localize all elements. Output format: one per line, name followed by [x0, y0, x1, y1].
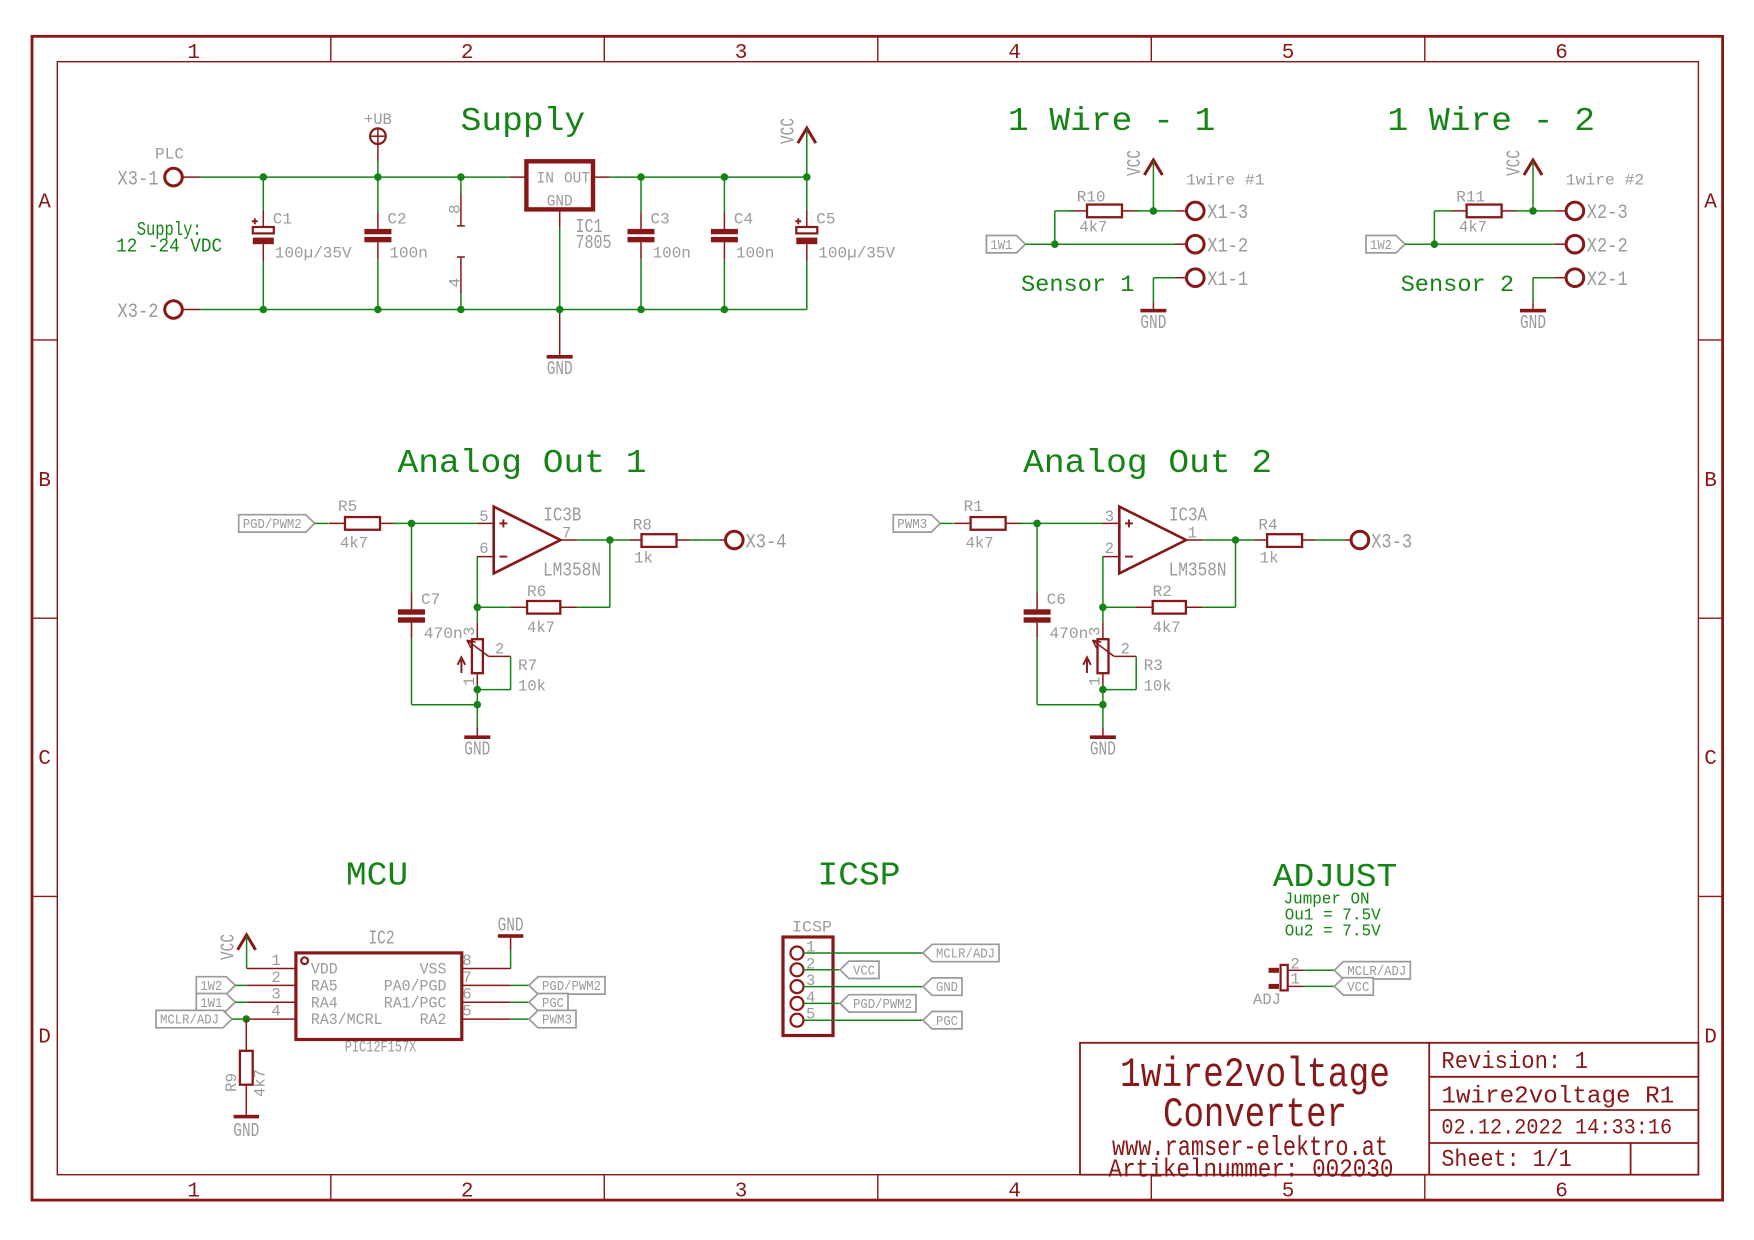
svg-text:RA3/MCRL: RA3/MCRL	[311, 1011, 383, 1029]
wire op-amp out	[1203, 536, 1254, 544]
wire ICSP pin2 VCC	[804, 969, 841, 971]
svg-text:4k7: 4k7	[1079, 219, 1107, 237]
svg-text:A: A	[1704, 192, 1717, 215]
wire supply top rail right	[610, 176, 807, 178]
section title Analog Out 2	[1023, 445, 1272, 482]
wire R10 to X-3	[1135, 207, 1175, 215]
capacitor C1	[252, 177, 352, 309]
svg-text:X3-3: X3-3	[1371, 531, 1412, 554]
svg-text:Ou2 = 7.5V: Ou2 = 7.5V	[1285, 922, 1382, 941]
svg-text:Converter: Converter	[1163, 1091, 1347, 1139]
svg-text:1wire #2: 1wire #2	[1566, 172, 1644, 190]
wire feedback vertical	[577, 540, 610, 607]
section title ICSP	[818, 858, 901, 895]
svg-text:3: 3	[735, 42, 748, 65]
ground GND MCU top	[498, 915, 524, 951]
svg-text:5: 5	[479, 508, 488, 526]
svg-text:C7: C7	[421, 591, 440, 609]
wire 1W1 to RA4	[235, 1001, 247, 1003]
svg-text:1W1: 1W1	[990, 239, 1012, 254]
svg-text:IC3A: IC3A	[1169, 505, 1207, 527]
svg-text:3: 3	[735, 1181, 748, 1204]
svg-text:+UB: +UB	[364, 111, 392, 129]
power VCC supply	[777, 118, 815, 177]
wire X2-1 to ground	[1533, 278, 1555, 303]
svg-text:C: C	[38, 748, 51, 771]
svg-text:A: A	[38, 192, 51, 215]
svg-text:100µ/35V: 100µ/35V	[275, 245, 352, 263]
svg-text:2: 2	[806, 955, 815, 973]
svg-text:Analog Out 2: Analog Out 2	[1023, 445, 1272, 482]
wire trimmer wiper	[1099, 656, 1136, 693]
svg-text:1wire #1: 1wire #1	[1186, 172, 1264, 190]
svg-text:C2: C2	[387, 211, 406, 229]
svg-text:X1-3: X1-3	[1207, 202, 1248, 225]
connector X3-2	[118, 301, 201, 324]
svg-text:12 -24 VDC: 12 -24 VDC	[116, 236, 222, 258]
svg-text:B: B	[1704, 470, 1717, 493]
connector X1-3	[1175, 202, 1248, 225]
svg-text:2: 2	[495, 641, 504, 659]
svg-text:PWM3: PWM3	[897, 518, 927, 533]
power VCC MCU	[218, 934, 256, 969]
ground GND Analog Out 2	[1090, 728, 1116, 761]
wire inverting input	[474, 557, 511, 623]
svg-text:1: 1	[187, 1181, 200, 1204]
svg-text:R1: R1	[964, 498, 983, 516]
power VCC 1 Wire - 2	[1504, 150, 1542, 211]
svg-text:1: 1	[1188, 525, 1197, 543]
node 1wire #2	[1566, 172, 1644, 190]
svg-text:2: 2	[1121, 641, 1130, 659]
section title MCU	[346, 858, 408, 895]
svg-text:X1-1: X1-1	[1207, 269, 1248, 292]
wire jumper pin2 MCLR/ADJ	[1303, 969, 1334, 971]
flag 1W1	[986, 236, 1025, 254]
connector X2-1	[1555, 269, 1628, 292]
svg-text:100n: 100n	[389, 245, 427, 263]
power VCC 1 Wire - 1	[1124, 150, 1162, 211]
svg-text:R9: R9	[223, 1073, 241, 1092]
resistor R8	[629, 517, 690, 568]
svg-text:1W1: 1W1	[200, 997, 222, 1012]
wire X1-1 to ground	[1153, 278, 1175, 303]
ground GND R9	[233, 1115, 259, 1142]
svg-text:1k: 1k	[1260, 549, 1279, 567]
wire feedback vertical	[1203, 540, 1236, 607]
svg-text:8: 8	[446, 204, 464, 214]
svg-text:4k7: 4k7	[527, 619, 555, 637]
connector X3-3	[1345, 531, 1412, 554]
op-amp ('IC3B', 'LM358N')	[477, 505, 601, 582]
title block	[1080, 1043, 1698, 1185]
svg-text:Artikelnummer: 002030: Artikelnummer: 002030	[1109, 1155, 1394, 1185]
svg-text:R7: R7	[518, 657, 537, 675]
svg-text:7: 7	[562, 525, 571, 543]
svg-text:R5: R5	[338, 498, 357, 516]
ground GND supply	[547, 310, 573, 381]
svg-text:100n: 100n	[653, 245, 691, 263]
svg-text:1: 1	[1087, 677, 1105, 686]
wire 1W2 net	[1405, 211, 1555, 248]
svg-text:B: B	[38, 470, 51, 493]
svg-text:C6: C6	[1047, 591, 1066, 609]
svg-text:X2-3: X2-3	[1587, 202, 1628, 225]
resistor R9	[223, 1019, 270, 1115]
svg-text:8: 8	[462, 952, 471, 970]
svg-text:X2-2: X2-2	[1587, 236, 1628, 259]
section title 1 Wire - 1	[1008, 103, 1216, 140]
wire to ground Analog Out 2	[1099, 690, 1107, 728]
svg-text:470n: 470n	[1049, 625, 1088, 643]
connector X1-2	[1175, 235, 1248, 258]
wire jumper pin1 VCC	[1303, 985, 1334, 987]
svg-text:VCC: VCC	[777, 118, 799, 144]
wire supply bottom rail	[200, 309, 807, 311]
svg-text:GND: GND	[547, 358, 573, 380]
svg-text:IC2: IC2	[369, 928, 395, 950]
svg-text:4: 4	[1008, 1181, 1021, 1204]
svg-text:4: 4	[271, 1003, 280, 1021]
jumper ADJ	[1253, 956, 1303, 1010]
microcontroller IC2 PIC12F157X	[247, 928, 511, 1057]
op-amp power pin 4	[446, 257, 465, 310]
op-amp ('IC3A', 'LM358N')	[1103, 505, 1227, 582]
capacitor C4	[711, 177, 774, 309]
node 1wire #1	[1186, 172, 1264, 190]
wire supply top rail	[200, 176, 510, 178]
wire +UB to rail	[377, 161, 379, 177]
svg-text:1 Wire - 1: 1 Wire - 1	[1008, 103, 1216, 140]
svg-text:R4: R4	[1258, 517, 1277, 535]
svg-text:D: D	[1704, 1026, 1717, 1049]
svg-text:6: 6	[479, 540, 488, 558]
svg-text:3: 3	[271, 986, 280, 1004]
svg-text:100n: 100n	[736, 245, 774, 263]
flag VCC ADJUST	[1334, 978, 1373, 996]
svg-text:GND: GND	[1140, 312, 1166, 334]
ground GND Analog Out 1	[464, 728, 490, 761]
svg-text:1: 1	[271, 952, 280, 970]
connector X3-4	[720, 531, 787, 554]
svg-text:PGC: PGC	[542, 997, 564, 1012]
flag VCC ICSP	[840, 961, 879, 979]
flag PGC MCU	[511, 994, 568, 1012]
svg-text:Supply: Supply	[461, 103, 586, 140]
svg-text:1: 1	[187, 42, 200, 65]
wire MCLR/ADJ to RA3	[232, 1015, 250, 1023]
svg-text:3: 3	[461, 627, 479, 636]
flag PGD/PWM2 MCU	[511, 977, 605, 995]
wire PGD/PWM2 to R5	[315, 522, 328, 524]
flag PGC ICSP	[923, 1012, 962, 1030]
trimmer R7	[458, 622, 546, 695]
op-amp power pin 8	[446, 177, 465, 226]
svg-text:C3: C3	[651, 211, 670, 229]
svg-text:4k7: 4k7	[340, 535, 368, 553]
wire inverting input	[1099, 557, 1136, 623]
svg-text:MCLR/ADJ: MCLR/ADJ	[160, 1014, 219, 1029]
svg-text:C4: C4	[734, 211, 753, 229]
wire 1W1 net	[1025, 211, 1175, 248]
svg-text:5: 5	[806, 1006, 815, 1024]
svg-text:VCC: VCC	[218, 934, 240, 960]
svg-text:1W2: 1W2	[1370, 239, 1392, 254]
wire R11 to X-3	[1515, 207, 1555, 215]
svg-text:LM358N: LM358N	[1169, 560, 1227, 582]
svg-text:GND: GND	[233, 1120, 259, 1142]
svg-text:1: 1	[1291, 971, 1300, 989]
flag PWM3	[893, 515, 940, 533]
connector X1-1	[1175, 269, 1248, 292]
svg-text:6: 6	[1555, 42, 1568, 65]
svg-text:GND: GND	[547, 193, 573, 211]
svg-text:VCC: VCC	[1124, 150, 1146, 176]
svg-text:7805: 7805	[576, 232, 612, 254]
svg-text:IN: IN	[537, 170, 554, 188]
connector ICSP header	[783, 919, 833, 1036]
svg-text:ICSP: ICSP	[792, 919, 832, 937]
svg-text:Revision: 1: Revision: 1	[1441, 1049, 1588, 1076]
svg-text:RA1/PGC: RA1/PGC	[384, 994, 447, 1012]
svg-text:4: 4	[1008, 42, 1021, 65]
voltage regulator IC1 7805	[510, 161, 612, 254]
svg-text:470n: 470n	[424, 625, 463, 643]
svg-text:10k: 10k	[518, 678, 546, 696]
wire R8 to X3-4	[690, 539, 720, 541]
svg-text:4: 4	[806, 989, 815, 1007]
svg-text:PWM3: PWM3	[542, 1014, 572, 1029]
svg-text:X1-2: X1-2	[1207, 236, 1248, 259]
svg-text:MCLR/ADJ: MCLR/ADJ	[936, 948, 995, 963]
svg-text:X2-1: X2-1	[1587, 269, 1628, 292]
wire R1 to op-amp	[1019, 520, 1103, 528]
flag MCLR/ADJ ICSP	[923, 944, 999, 962]
wire to ground Analog Out 1	[474, 690, 482, 728]
svg-text:RA5: RA5	[311, 977, 338, 995]
svg-text:X3-4: X3-4	[746, 531, 787, 554]
svg-text:VCC: VCC	[853, 964, 875, 979]
svg-text:C1: C1	[273, 211, 292, 229]
power +UB	[364, 111, 392, 161]
flag MCLR/ADJ ADJUST	[1334, 962, 1410, 980]
svg-text:PGD/PWM2: PGD/PWM2	[853, 998, 912, 1013]
svg-text:RA2: RA2	[420, 1011, 447, 1029]
note Sensor 1	[1021, 272, 1135, 298]
svg-text:C: C	[1704, 748, 1717, 771]
svg-text:5: 5	[462, 1003, 471, 1021]
flag PGD/PWM2 ICSP	[840, 995, 916, 1013]
svg-text:4k7: 4k7	[1153, 619, 1181, 637]
wire VSS to GND	[510, 950, 512, 969]
svg-text:VDD: VDD	[311, 961, 338, 979]
svg-text:X3-1: X3-1	[118, 168, 159, 191]
svg-text:GND: GND	[464, 738, 490, 760]
resistor R6	[510, 583, 577, 637]
svg-text:OUT: OUT	[564, 170, 590, 188]
svg-text:Analog Out 1: Analog Out 1	[398, 445, 647, 482]
svg-text:2: 2	[271, 969, 280, 987]
svg-text:PLC: PLC	[155, 146, 184, 164]
svg-text:R3: R3	[1144, 657, 1163, 675]
wire ICSP pin5 PGC	[804, 1019, 924, 1021]
capacitor C7	[398, 523, 463, 704]
section title Analog Out 1	[398, 445, 647, 482]
svg-text:PGC: PGC	[936, 1015, 958, 1030]
wire 1W2 to RA5	[235, 984, 247, 986]
wire R5 to op-amp	[393, 520, 477, 528]
svg-text:5: 5	[1282, 42, 1295, 65]
connector X2-2	[1555, 235, 1628, 258]
connector X3-1	[118, 168, 201, 191]
capacitor C5	[795, 177, 895, 309]
resistor R2	[1136, 583, 1203, 637]
capacitor C3	[628, 177, 691, 309]
resistor R4	[1254, 517, 1315, 568]
trimmer R3	[1083, 622, 1171, 695]
svg-text:4: 4	[446, 278, 464, 288]
svg-text:6: 6	[462, 986, 471, 1004]
svg-text:3: 3	[1087, 627, 1105, 636]
svg-text:4k7: 4k7	[252, 1069, 270, 1097]
svg-text:10k: 10k	[1144, 678, 1172, 696]
resistor R10	[1071, 189, 1139, 237]
svg-text:6: 6	[1555, 1181, 1568, 1204]
svg-text:VSS: VSS	[420, 961, 447, 979]
wire PWM3 to R1	[940, 522, 953, 524]
ground GND 1 Wire - 1	[1140, 303, 1166, 334]
note Jumper ON	[1284, 891, 1382, 942]
svg-text:X3-2: X3-2	[118, 301, 159, 324]
svg-text:VCC: VCC	[1504, 150, 1526, 176]
svg-text:RA4: RA4	[311, 994, 338, 1012]
note Supply voltage	[116, 219, 222, 258]
svg-text:7: 7	[462, 969, 471, 987]
svg-text:1: 1	[806, 939, 815, 957]
wire C6 bottom	[1037, 704, 1103, 706]
svg-text:Sensor 1: Sensor 1	[1021, 272, 1135, 298]
svg-text:MCU: MCU	[346, 858, 408, 895]
section title 1 Wire - 2	[1388, 103, 1596, 140]
resistor R5	[329, 498, 397, 553]
svg-text:ADJ: ADJ	[1253, 991, 1281, 1009]
svg-text:2: 2	[461, 1181, 474, 1204]
svg-text:GND: GND	[1520, 312, 1546, 334]
svg-text:3: 3	[806, 972, 815, 990]
svg-text:GND: GND	[1090, 738, 1116, 760]
svg-text:1 Wire - 2: 1 Wire - 2	[1388, 103, 1596, 140]
svg-text:Sensor 2: Sensor 2	[1401, 272, 1515, 298]
wire C7 bottom	[412, 704, 478, 706]
connector X2-3	[1555, 202, 1628, 225]
flag 1W2 MCU	[196, 977, 235, 995]
svg-text:1: 1	[461, 677, 479, 686]
svg-text:4k7: 4k7	[1459, 219, 1487, 237]
svg-text:2: 2	[1105, 540, 1114, 558]
wire trimmer wiper	[474, 656, 511, 693]
svg-text:R10: R10	[1077, 189, 1106, 207]
section title Supply	[461, 103, 586, 140]
svg-text:IC3B: IC3B	[543, 505, 581, 527]
svg-text:100µ/35V: 100µ/35V	[818, 245, 895, 263]
svg-text:PA0/PGD: PA0/PGD	[384, 977, 447, 995]
svg-text:R11: R11	[1456, 189, 1485, 207]
flag 1W1 MCU	[196, 994, 235, 1012]
svg-text:ICSP: ICSP	[818, 858, 901, 895]
svg-text:VCC: VCC	[1347, 981, 1369, 996]
section title ADJUST	[1273, 859, 1398, 896]
svg-text:D: D	[38, 1026, 51, 1049]
wire ICSP pin3 GND	[804, 986, 924, 988]
svg-text:R6: R6	[527, 583, 546, 601]
wire ICSP pin4 PGD/PWM2	[804, 1002, 841, 1004]
flag MCLR/ADJ MCU	[156, 1010, 232, 1028]
ground GND 1 Wire - 2	[1520, 303, 1546, 334]
svg-text:LM358N: LM358N	[543, 560, 601, 582]
svg-text:1wire2voltage R1: 1wire2voltage R1	[1441, 1084, 1674, 1111]
wire op-amp out	[577, 536, 628, 544]
svg-text:3: 3	[1105, 508, 1114, 526]
wire R4 to X3-3	[1316, 539, 1346, 541]
note Sensor 2	[1401, 272, 1515, 298]
flag PGD/PWM2	[239, 515, 315, 533]
svg-text:4k7: 4k7	[966, 535, 994, 553]
svg-text:2: 2	[461, 42, 474, 65]
svg-text:02.12.2022 14:33:16: 02.12.2022 14:33:16	[1441, 1116, 1672, 1141]
svg-text:GND: GND	[936, 981, 958, 996]
flag 1W2	[1366, 236, 1405, 254]
svg-text:Sheet: 1/1: Sheet: 1/1	[1441, 1147, 1571, 1174]
svg-text:C5: C5	[816, 211, 835, 229]
wire IC1 GND to rail	[559, 227, 561, 309]
capacitor C2	[364, 177, 427, 309]
resistor R11	[1450, 189, 1518, 237]
junction dots supply	[260, 173, 811, 313]
capacitor C6	[1024, 523, 1089, 704]
svg-text:PIC12F157X: PIC12F157X	[345, 1039, 417, 1057]
resistor R1	[954, 498, 1022, 553]
svg-text:R8: R8	[633, 517, 652, 535]
svg-text:R2: R2	[1153, 583, 1172, 601]
svg-text:1k: 1k	[634, 549, 653, 567]
node PLC	[155, 146, 184, 164]
flag GND ICSP	[923, 978, 962, 996]
svg-text:GND: GND	[498, 915, 524, 937]
wire ICSP pin1 MCLR/ADJ	[804, 952, 924, 954]
svg-text:PGD/PWM2: PGD/PWM2	[243, 518, 302, 533]
flag PWM3 MCU	[511, 1010, 576, 1028]
